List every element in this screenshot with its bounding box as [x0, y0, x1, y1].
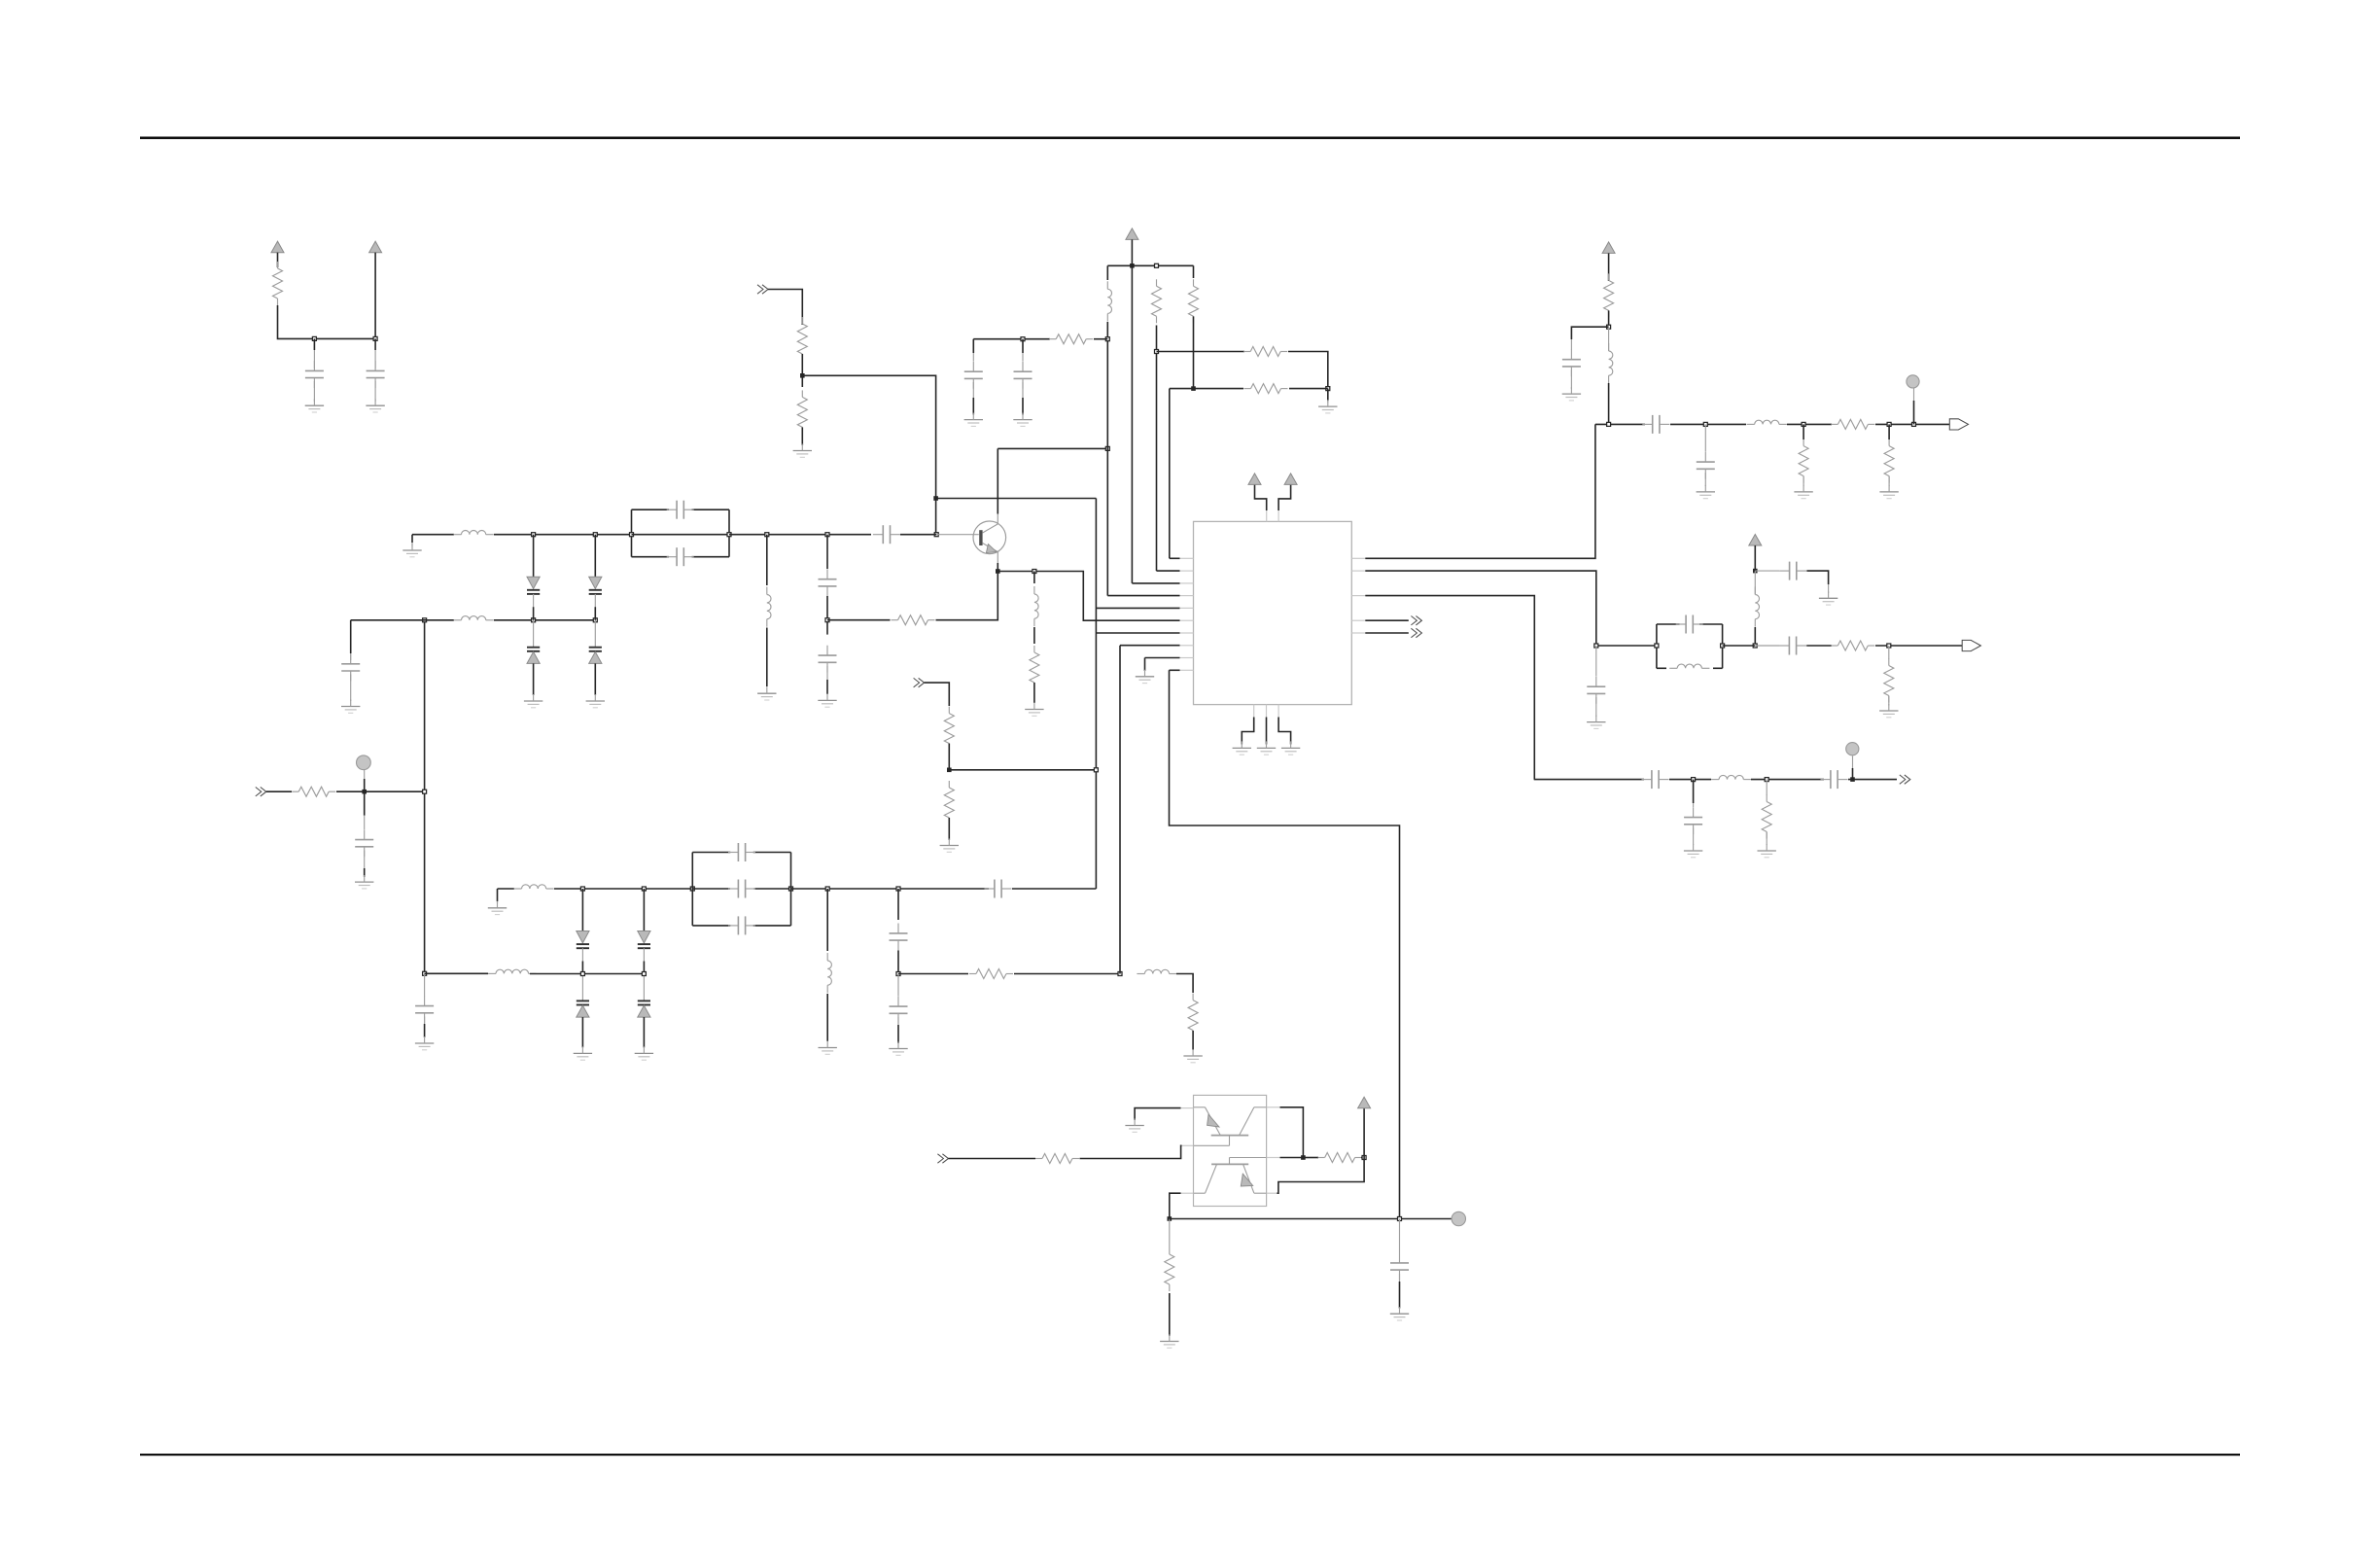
power symbol IC A — [1248, 474, 1261, 485]
pin stub left 4 — [1180, 595, 1194, 597]
connector out A — [1411, 616, 1421, 625]
resistor R emitter gnd — [1030, 646, 1039, 689]
wire row 348 b — [1094, 338, 1107, 340]
capacitor C mid top — [890, 924, 908, 951]
wire divider low — [801, 427, 803, 445]
junction filter1 in — [630, 533, 634, 537]
inductor L rail — [514, 885, 554, 889]
wire input cap gnd — [364, 868, 366, 877]
wire tx cap stub — [1693, 780, 1695, 803]
junction rail shunt C — [896, 887, 900, 891]
resistor R row436 series — [1831, 419, 1874, 429]
resistor R lo shunt — [1884, 659, 1894, 703]
ground input cap — [355, 875, 373, 889]
connector control input — [757, 285, 768, 294]
output port A — [1949, 419, 1968, 430]
lead base — [936, 534, 979, 536]
wire out chain cap — [1571, 327, 1608, 339]
lead cap A — [313, 350, 315, 369]
junction varactor D bottom — [642, 972, 646, 976]
wire collector row — [997, 447, 1107, 449]
capacitor C coupling — [873, 525, 900, 544]
wire VCC2 stem — [374, 253, 376, 339]
wire supply low — [1106, 322, 1108, 326]
wire q2 collector arm — [1280, 1107, 1304, 1158]
wire rail in box — [692, 888, 730, 890]
varactor D1 — [527, 535, 540, 620]
power symbol VCC1 — [271, 241, 284, 253]
varactor D7 — [577, 974, 589, 1048]
capacitor C legend B — [367, 361, 385, 388]
lead lo L — [1754, 571, 1756, 594]
capacitor C legend A — [305, 361, 324, 388]
wire rail gnd stub — [497, 889, 499, 901]
lead gnd stub — [411, 543, 413, 546]
capacitor C filter2 bottom — [728, 916, 755, 934]
lead row436 cap low — [1704, 473, 1706, 486]
ground — [586, 694, 605, 708]
capacitor C filter2 mid — [728, 880, 755, 898]
lead bias cap low — [424, 1017, 426, 1025]
wire feed row e — [1176, 974, 1193, 994]
wire row 361 b — [1288, 352, 1328, 389]
pin stub right 5 — [1351, 632, 1365, 634]
wire tap to base node — [802, 375, 935, 534]
wire q2 in a — [948, 1158, 1035, 1160]
wire varactor bias column — [424, 620, 426, 974]
pin stub bottom 1 — [1253, 705, 1255, 718]
capacitor C bias — [415, 996, 434, 1023]
wire cap A lead — [313, 338, 315, 350]
junction tank in — [1655, 644, 1659, 648]
wire rail 3 — [791, 888, 990, 890]
ground lo shunt — [1879, 704, 1898, 718]
varactor D8 — [638, 974, 650, 1048]
lead mid cap — [897, 974, 899, 997]
junction shunt C — [825, 533, 829, 537]
lead cap B — [374, 350, 376, 369]
ground pin9 — [1136, 670, 1154, 684]
resistor R input2 bottom — [944, 781, 954, 825]
capacitor C chain bottom — [819, 646, 837, 673]
wire out chain 2 — [1608, 310, 1610, 327]
wire input2 — [925, 683, 950, 706]
resistor R input2 top — [944, 707, 954, 751]
wire pin10 row — [1170, 669, 1180, 671]
connector tx out — [1900, 775, 1910, 784]
pin stub q2 ml — [1182, 1144, 1194, 1146]
junction q2 pwr — [1362, 1156, 1366, 1160]
wire q2 pwr stem — [1363, 1108, 1365, 1158]
lead tune cap low — [350, 675, 352, 702]
wire lo stem — [1754, 545, 1756, 571]
lead emitter — [997, 552, 998, 564]
wire tx tp lead — [1852, 768, 1854, 780]
wire row 348 a — [973, 338, 1050, 340]
wire input cap lead — [364, 791, 366, 816]
ground base row — [402, 544, 421, 557]
lead bias cap2 low — [1399, 1274, 1401, 1282]
ground tx cap — [1684, 844, 1702, 858]
lead lo shunt — [1888, 646, 1890, 659]
ground IC C — [1281, 741, 1300, 755]
junction base column — [933, 496, 938, 501]
pin stub top 1 — [1266, 510, 1268, 521]
resistor R emitter — [892, 615, 935, 625]
ground row436 r1 — [1794, 485, 1812, 499]
ground cap348 B — [1013, 413, 1032, 427]
wire q2 base arm — [1280, 1157, 1304, 1159]
junction varactor C top — [580, 887, 584, 891]
junction pin8 column — [1118, 972, 1122, 976]
wire gnd pin a — [1242, 718, 1253, 745]
capacitor C tx shunt — [1684, 807, 1702, 834]
lead lo cap — [1755, 570, 1779, 572]
bottom border rule — [140, 1454, 2240, 1456]
junction input2 node — [947, 768, 952, 773]
wire bias row — [1170, 1218, 1452, 1220]
wire tune row left — [351, 619, 454, 621]
wire VCC1 stem — [277, 253, 279, 267]
capacitor C filter1 bottom — [667, 547, 694, 566]
capacitor C chain top — [819, 569, 837, 596]
wire input2 node — [948, 744, 950, 770]
lead out cap — [1570, 339, 1572, 350]
wire tx row c — [1751, 779, 1824, 781]
wire pin1 to chain — [1365, 424, 1595, 558]
wire out pin7r — [1365, 632, 1409, 634]
wire base row start — [412, 534, 454, 536]
wire pin3 row — [1132, 582, 1179, 584]
wire bus 2 low — [1193, 316, 1195, 388]
junction filter2 in — [690, 887, 694, 891]
lead row399 gnd — [1327, 401, 1329, 403]
transistor Q1 — [973, 521, 1006, 554]
lead tp — [364, 770, 366, 779]
wire pin5 row — [1096, 607, 1179, 609]
ground shunt L — [757, 686, 776, 700]
wire row436 a — [1595, 423, 1645, 425]
varactor D6 — [638, 889, 650, 974]
lead input cap low — [364, 851, 366, 869]
wire vcc pin b — [1278, 484, 1291, 510]
inductor L supply — [1107, 281, 1111, 321]
power symbol q2 — [1358, 1097, 1371, 1108]
wire cap chain 2 — [826, 596, 828, 635]
capacitor C bias 2 — [1390, 1253, 1409, 1281]
wire tx row b — [1669, 779, 1711, 781]
ground lo cap — [1819, 591, 1837, 605]
wire base row 2 — [494, 534, 632, 536]
junction tx a — [1692, 778, 1696, 782]
ground IC B — [1257, 741, 1276, 755]
lead mid cap low — [897, 1017, 899, 1025]
pin stub left 1 — [1180, 557, 1194, 559]
wire through filter1 — [632, 534, 730, 536]
pin stub q2 bl — [1181, 1192, 1194, 1194]
junction row436 b — [1703, 422, 1707, 426]
inductor L tune 1 — [454, 616, 494, 620]
wire vcc pin a — [1255, 484, 1267, 510]
inductor L base row — [454, 531, 494, 535]
lead lo gnd — [1828, 584, 1830, 593]
pin stub left 8 — [1180, 645, 1194, 647]
wire control in — [768, 290, 802, 326]
wire legend rail — [278, 305, 376, 338]
IC U1 body — [1194, 521, 1352, 704]
resistor R input — [292, 787, 335, 796]
ground row436 r2 — [1879, 485, 1898, 499]
wire emitter chain 3 — [1033, 683, 1035, 703]
capacitor C tank — [1676, 615, 1703, 634]
lead tx shunt low — [1766, 832, 1767, 846]
varactor D4 — [589, 620, 602, 695]
capacitor C348 A — [964, 362, 983, 389]
lead tune cap — [350, 653, 352, 660]
capacitor C tx 1 — [1642, 770, 1669, 789]
wire bias cap2 gnd — [1399, 1282, 1401, 1309]
resistor R q2 fb — [1318, 1153, 1362, 1163]
wire row436 d — [1875, 423, 1949, 425]
junction lo out — [1887, 644, 1891, 648]
wire rf in — [266, 790, 292, 792]
wire power bus — [1107, 264, 1193, 266]
wire lo row d — [1875, 645, 1962, 647]
capacitor C input — [355, 829, 373, 857]
junction shunt L — [765, 533, 769, 537]
wire q2 bias low — [1169, 1293, 1171, 1336]
wire to base — [900, 534, 936, 536]
junction tx b — [1765, 778, 1768, 782]
junction varactor C bottom — [580, 972, 584, 976]
ground emitter chain — [1025, 703, 1043, 717]
wire rail 4 — [1012, 888, 1096, 890]
inductor L shunt — [767, 587, 771, 627]
junction bias column — [423, 790, 427, 793]
wire bias cap gnd — [424, 1024, 426, 1037]
wire q2 in b — [1080, 1145, 1182, 1158]
wire row 399 b — [1170, 388, 1243, 390]
wire q2 fb b — [1361, 1157, 1364, 1159]
ground input2 — [940, 839, 959, 853]
ground out cap — [1562, 387, 1581, 401]
capacitor C pin2 — [1587, 677, 1605, 704]
wire pin3 column — [1131, 265, 1133, 583]
wire collector — [997, 448, 998, 513]
wire mid cap gnd — [897, 1025, 899, 1043]
wire row436 r2 — [1888, 424, 1890, 439]
capacitor C filter2 top — [728, 843, 755, 861]
lead collector — [997, 513, 998, 524]
ground rail — [488, 901, 507, 915]
wire pin2 row — [1157, 570, 1180, 572]
wire lo row b — [1723, 645, 1756, 647]
wire tune row right — [494, 619, 595, 621]
wire row436 c — [1787, 423, 1832, 425]
ground tx shunt — [1758, 844, 1776, 858]
test point TP tx — [1846, 743, 1859, 755]
junction tx tp — [1850, 777, 1855, 782]
wire tune cap lead — [350, 620, 352, 653]
wire emitter row b — [936, 572, 998, 620]
wire pin4 column — [1106, 326, 1108, 596]
connector RF input — [256, 788, 266, 796]
wire shunt L low — [766, 628, 768, 687]
resistor R bus 1 — [1152, 279, 1162, 323]
resistor R legend — [273, 262, 283, 305]
pin stub q2 tl — [1181, 1107, 1194, 1109]
junction bias bottom — [423, 971, 427, 975]
lead cap348 A low — [972, 382, 974, 398]
pin stub left 7 — [1180, 632, 1194, 634]
resistor R bus 2 — [1189, 279, 1199, 323]
wire q2 jog — [1277, 1158, 1365, 1194]
power symbol VCC2 — [369, 241, 382, 253]
top border rule — [140, 137, 2240, 140]
capacitor C lo series — [1779, 637, 1806, 655]
capacitor C filter1 top — [667, 501, 694, 519]
junction pin5 column — [1094, 768, 1098, 772]
pin stub left 3 — [1180, 582, 1194, 584]
junction bus2 node — [1191, 386, 1196, 391]
wire rail L low — [826, 994, 828, 1041]
wire row 399 a — [1289, 388, 1328, 390]
junction out chain — [1607, 325, 1611, 329]
junction row436 a — [1607, 422, 1611, 426]
pin stub q2 br — [1267, 1192, 1277, 1194]
junction divider tap — [800, 373, 805, 378]
ground tune cap — [341, 700, 360, 714]
wire out chain stem — [1608, 253, 1610, 281]
capacitor C rail coupling — [985, 880, 1012, 898]
junction mid tap — [896, 972, 900, 976]
wire row399 gnd stub — [1327, 389, 1329, 401]
ground legend B — [366, 399, 384, 412]
wire pin9 row — [1145, 657, 1180, 659]
varactor D2 — [589, 535, 602, 620]
wire emitter row a — [827, 619, 891, 621]
wire cap B lead — [374, 338, 376, 350]
ground bias cap — [415, 1036, 434, 1050]
junction row348 cap B — [1021, 337, 1025, 341]
lead row436 r2 — [1888, 476, 1890, 486]
wire row436 tp lead — [1913, 401, 1915, 424]
lead lo shunt low — [1888, 696, 1890, 706]
lead cap348 B — [1022, 353, 1024, 362]
junction legend B — [373, 336, 377, 340]
wire feed row a — [425, 972, 488, 974]
junction row436 d — [1887, 422, 1891, 426]
wire row 361 a — [1157, 351, 1245, 353]
capacitor C lo — [1779, 562, 1806, 580]
wire bus drop L — [1106, 265, 1108, 280]
connector input 2 — [914, 678, 925, 686]
test point TP bias — [1452, 1211, 1465, 1225]
ground mid cap — [889, 1042, 907, 1056]
wire rail L — [826, 889, 828, 951]
lead lo series — [1755, 645, 1779, 647]
lead cap348 A — [972, 353, 974, 362]
ground cap348 A — [964, 413, 983, 427]
power symbol main — [1126, 228, 1138, 240]
varactor D5 — [577, 889, 589, 974]
wire rail in box 2 — [754, 888, 791, 890]
test point TP out — [1907, 375, 1919, 388]
ground — [635, 1046, 653, 1060]
pin stub left 6 — [1180, 619, 1194, 621]
junction filter2 out — [789, 887, 793, 891]
resistor R tx shunt — [1762, 795, 1771, 839]
inductor L row436 — [1747, 420, 1787, 424]
filter F2 body — [692, 853, 790, 926]
wire tp lead — [364, 779, 366, 791]
lead bias cap2 — [1399, 1219, 1401, 1253]
lead tx cap low — [1693, 828, 1695, 846]
wire pin8 column — [1119, 646, 1121, 974]
wire row436 r1 — [1802, 424, 1804, 439]
lead bias cap — [424, 973, 426, 996]
ground cap chain — [818, 693, 836, 707]
ground IC A — [1233, 741, 1251, 755]
junction q2 fb — [1301, 1155, 1306, 1160]
varactor D3 — [527, 620, 540, 695]
lead cap B low — [374, 381, 376, 402]
wire cap chain 1 — [826, 535, 828, 569]
wire shunt L — [766, 535, 768, 585]
resistor R row399 — [1244, 384, 1288, 394]
wire q2 fb a — [1303, 1157, 1318, 1159]
wire row 792 — [949, 769, 1096, 771]
resistor R lo — [1831, 641, 1874, 650]
lead tx shunt — [1766, 780, 1767, 795]
wire cap348 B — [1022, 339, 1024, 353]
wire gnd pin c — [1278, 718, 1291, 745]
pin stub q2 mr — [1267, 1157, 1280, 1159]
transistor Q2b — [1194, 1158, 1267, 1194]
wire power stem — [1131, 239, 1133, 265]
junction varactor A top — [532, 533, 536, 537]
junction base node — [934, 533, 938, 537]
resistor R row436 shunt1 — [1799, 439, 1808, 483]
connector out B — [1411, 628, 1421, 637]
wire input2 low — [948, 818, 950, 840]
lead tx tp — [1852, 756, 1854, 769]
transistor Q2a — [1194, 1107, 1267, 1146]
wire feed gnd — [1192, 1031, 1194, 1050]
inductor L tx — [1711, 775, 1751, 779]
resistor R divider top — [797, 317, 807, 361]
resistor R row361 — [1243, 347, 1287, 357]
capacitor C out chain — [1562, 349, 1581, 376]
pin stub q2 tr — [1267, 1106, 1280, 1108]
lead input cap — [364, 816, 366, 829]
capacitor C mid bottom — [890, 997, 908, 1024]
wire pin4 row — [1107, 595, 1179, 597]
wire base row 3 — [729, 534, 871, 536]
lead row436 r1 — [1802, 476, 1804, 486]
inductor L feed out — [1137, 969, 1176, 973]
junction legend A — [312, 336, 316, 340]
wire feed row d — [1014, 973, 1120, 975]
lead rail gnd — [497, 901, 499, 903]
junction tank out — [1721, 644, 1725, 648]
wire cap348 A — [972, 339, 974, 353]
wire pin2 to lo chain — [1365, 571, 1596, 646]
wire rail start — [498, 888, 515, 890]
wire bus drop R — [1193, 265, 1195, 278]
inductor L emitter — [1034, 586, 1038, 626]
lead pin2 cap — [1595, 646, 1597, 677]
